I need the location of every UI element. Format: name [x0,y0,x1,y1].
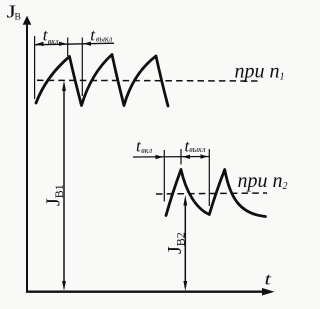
svg-text:вкл: вкл [141,146,152,155]
svg-text:выкл: выкл [96,35,113,44]
svg-text:вкл: вкл [48,37,59,46]
svg-text:при n2: при n2 [238,170,288,192]
svg-text:выкл: выкл [189,145,206,154]
svg-text:B: B [15,13,21,23]
svg-text:при n1: при n1 [235,61,285,83]
